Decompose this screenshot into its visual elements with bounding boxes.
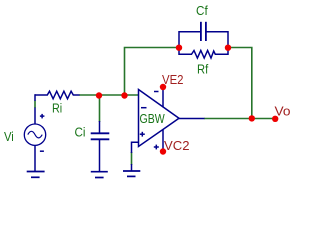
node C (feedback left) (176, 45, 182, 51)
svg-text:Cf: Cf (196, 3, 208, 18)
svg-text:Rf: Rf (197, 62, 209, 77)
svg-text:VE2: VE2 (162, 72, 184, 87)
pin VC2 (positive supply) (160, 148, 166, 154)
node Vo (output terminal) (272, 116, 278, 122)
svg-text:Vo: Vo (275, 104, 291, 119)
resistor Ri (35, 91, 80, 99)
svg-text:GBW: GBW (140, 111, 166, 126)
node B (feedback tap junction) (121, 92, 127, 98)
wire: node A down to Ci (green vertical) (99, 95, 101, 122)
capacitor Ci (91, 121, 110, 171)
ground (below Ci) (91, 172, 108, 178)
node A (Ri/Ci junction) (96, 92, 102, 98)
voltage source Vi (24, 94, 45, 171)
node E (output junction) (249, 115, 255, 121)
resistor Rf (179, 48, 228, 59)
svg-text:Ri: Ri (52, 101, 62, 116)
wire: feedback tap up and across to Cf/Rf (125, 48, 180, 96)
svg-text:Ci: Ci (75, 125, 86, 140)
wire: op-amp output to Vo (204, 118, 275, 120)
ground (below op-amp non-inverting input) (123, 171, 140, 176)
ground (below Vi) (27, 172, 45, 178)
wire: feedback right side down to output junction (228, 48, 252, 119)
pin VE2 (negative supply) (160, 84, 166, 90)
op-amp U1 (132, 87, 205, 171)
svg-text:Vi: Vi (4, 129, 14, 144)
wire: Ri right lead to op-amp inverting input (79, 94, 138, 96)
svg-text:VC2: VC2 (164, 138, 190, 153)
wire: Vi top lead to Ri corner (green vertical segment) (34, 101, 36, 109)
wire: non-inverting input to ground (green middle segment) (131, 152, 133, 165)
capacitor Cf (179, 22, 228, 48)
node D (feedback right) (225, 45, 231, 51)
